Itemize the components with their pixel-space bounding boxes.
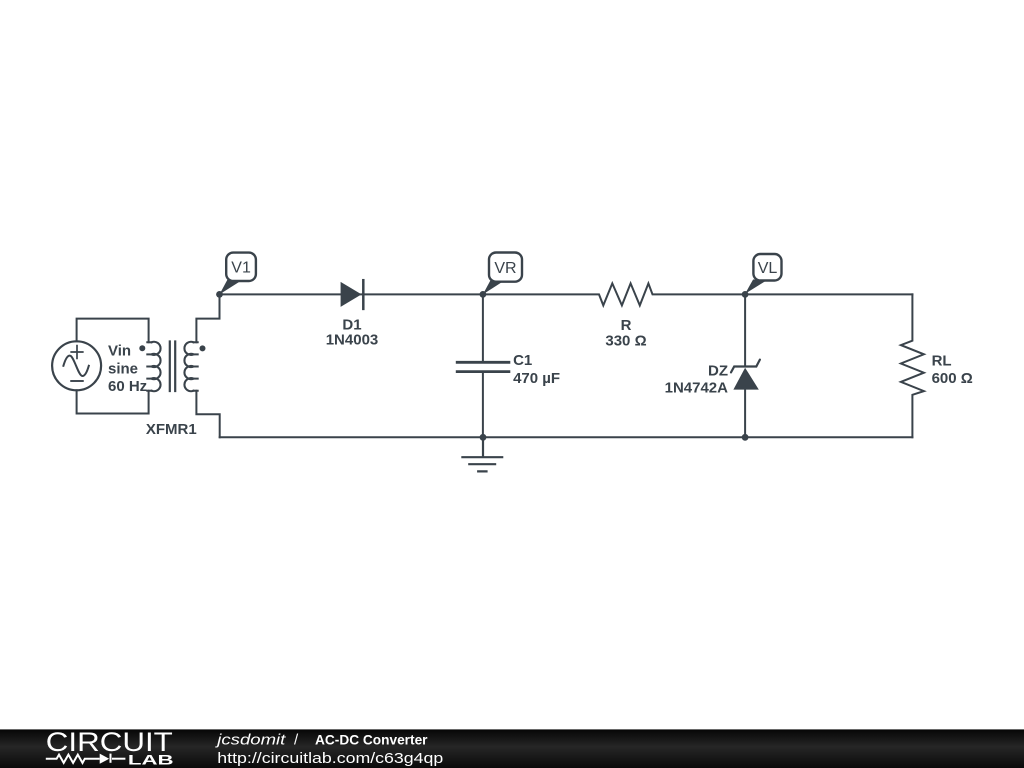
svg-text:LAB: LAB — [128, 752, 174, 768]
svg-text:1N4742A: 1N4742A — [665, 380, 729, 397]
svg-text:60 Hz: 60 Hz — [108, 378, 147, 395]
svg-text:C1: C1 — [513, 352, 532, 369]
svg-text:jcsdomit: jcsdomit — [215, 732, 286, 749]
svg-text:V1: V1 — [231, 260, 251, 277]
svg-text:R: R — [621, 317, 632, 334]
svg-text:XFMR1: XFMR1 — [146, 421, 197, 438]
svg-text:DZ: DZ — [708, 363, 728, 380]
svg-text:VR: VR — [494, 260, 516, 277]
svg-text:330 Ω: 330 Ω — [605, 333, 646, 350]
svg-text:RL: RL — [932, 352, 952, 369]
svg-text:AC-DC Converter: AC-DC Converter — [315, 732, 428, 748]
svg-text:VL: VL — [758, 260, 778, 277]
svg-text:1N4003: 1N4003 — [326, 332, 379, 349]
svg-text:600 Ω: 600 Ω — [932, 370, 973, 387]
svg-text:http://circuitlab.com/c63g4qp: http://circuitlab.com/c63g4qp — [217, 750, 443, 767]
svg-text:470 µF: 470 µF — [513, 370, 560, 387]
svg-text:Vin: Vin — [108, 343, 131, 360]
svg-text:sine: sine — [108, 360, 138, 377]
